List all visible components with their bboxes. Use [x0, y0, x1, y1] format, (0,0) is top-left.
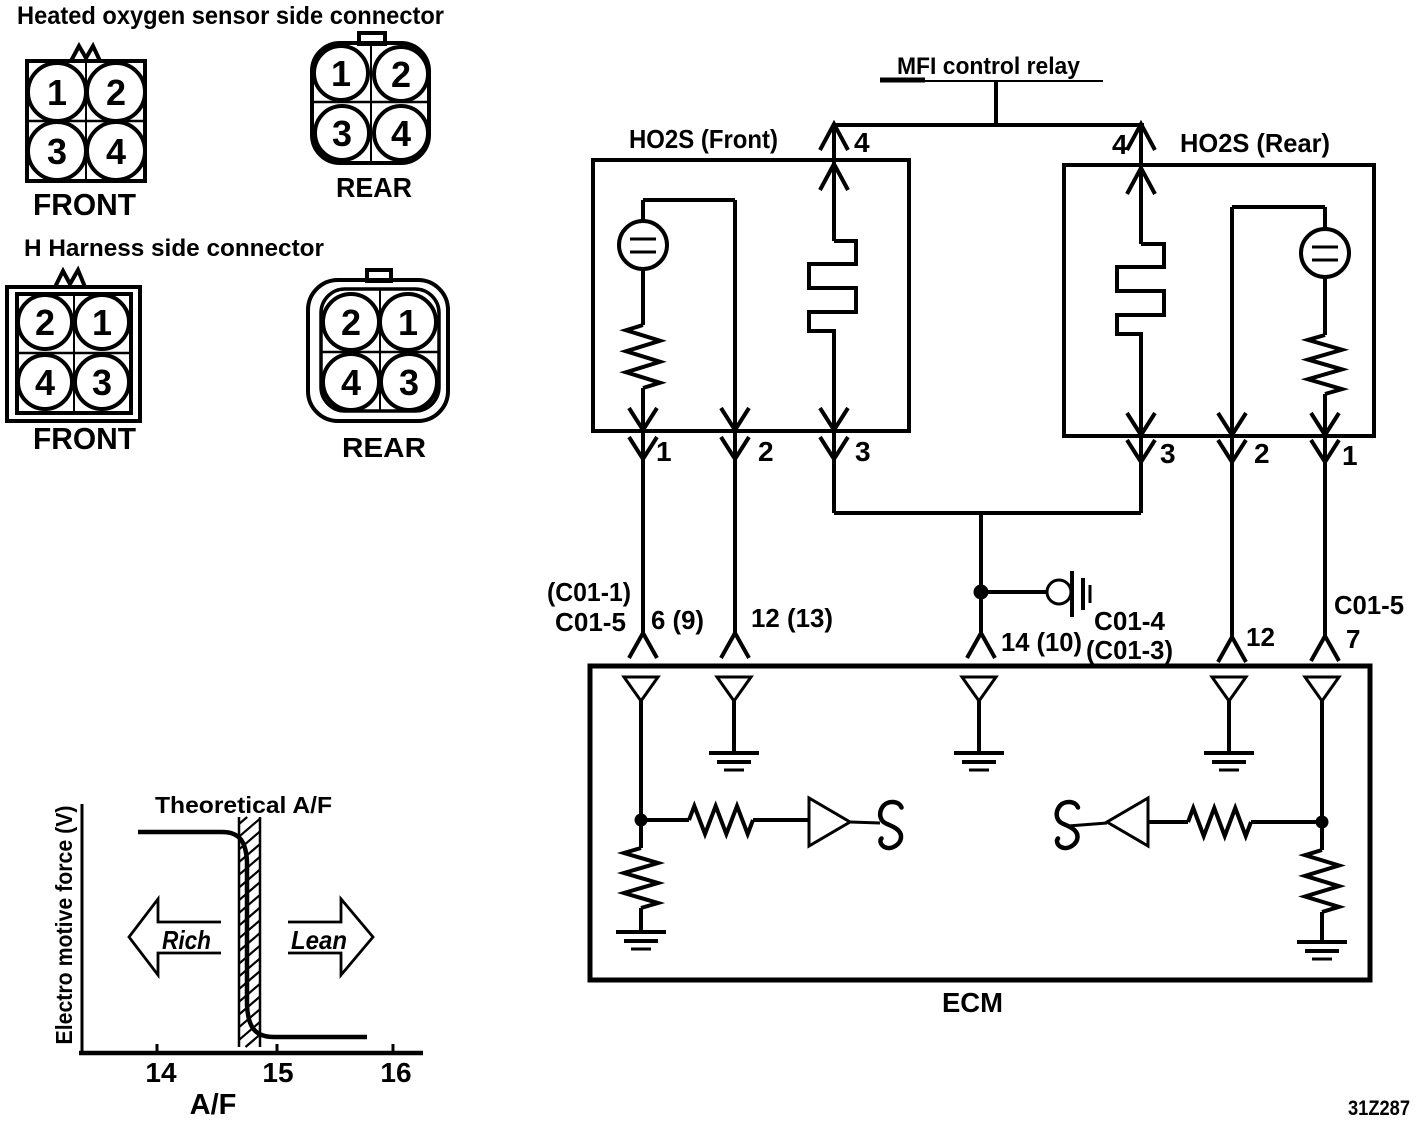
svg-text:H Harness side connector: H Harness side connector: [24, 235, 324, 262]
svg-text:FRONT: FRONT: [33, 421, 136, 456]
svg-text:C01-5: C01-5: [1334, 590, 1404, 620]
svg-text:Lean: Lean: [291, 925, 347, 955]
svg-text:4: 4: [106, 131, 126, 172]
svg-text:C01-5: C01-5: [555, 607, 626, 637]
svg-text:Electro motive force (V): Electro motive force (V): [51, 806, 77, 1045]
svg-text:3: 3: [47, 131, 67, 172]
svg-text:2: 2: [341, 302, 361, 343]
svg-text:(C01-1): (C01-1): [547, 577, 631, 607]
svg-text:A/F: A/F: [190, 1089, 237, 1121]
svg-text:4: 4: [391, 113, 411, 154]
svg-text:2: 2: [1254, 438, 1270, 469]
svg-text:4: 4: [341, 362, 361, 403]
svg-text:HO2S (Front): HO2S (Front): [629, 124, 778, 154]
svg-text:Heated oxygen sensor side conn: Heated oxygen sensor side connector: [17, 2, 444, 30]
svg-text:2: 2: [391, 54, 411, 95]
svg-text:7: 7: [1346, 624, 1360, 654]
svg-text:6 (9): 6 (9): [651, 605, 704, 635]
svg-text:3: 3: [399, 362, 419, 403]
svg-text:HO2S (Rear): HO2S (Rear): [1180, 128, 1330, 158]
svg-text:12 (13): 12 (13): [751, 603, 833, 633]
svg-text:1: 1: [656, 436, 672, 467]
svg-text:Theoretical A/F: Theoretical A/F: [155, 792, 332, 818]
svg-text:REAR: REAR: [342, 432, 426, 463]
svg-text:15: 15: [262, 1057, 293, 1088]
svg-text:3: 3: [332, 113, 352, 154]
svg-text:C01-4: C01-4: [1094, 606, 1166, 636]
svg-text:31Z287: 31Z287: [1348, 1097, 1410, 1120]
svg-text:12: 12: [1246, 622, 1275, 652]
svg-text:4: 4: [35, 362, 55, 403]
svg-text:1: 1: [47, 72, 67, 113]
svg-text:14 (10): 14 (10): [1001, 627, 1082, 657]
svg-text:3: 3: [92, 362, 112, 403]
svg-text:3: 3: [1160, 438, 1176, 469]
svg-text:3: 3: [855, 436, 871, 467]
svg-text:16: 16: [380, 1057, 411, 1088]
svg-text:Rich: Rich: [162, 925, 211, 955]
svg-text:ECM: ECM: [942, 987, 1003, 1018]
svg-text:2: 2: [106, 72, 126, 113]
svg-text:4: 4: [854, 127, 870, 158]
svg-text:FRONT: FRONT: [33, 187, 136, 222]
svg-text:(C01-3): (C01-3): [1086, 635, 1173, 665]
svg-text:MFI control relay: MFI control relay: [897, 53, 1081, 80]
svg-text:1: 1: [92, 302, 112, 343]
svg-text:1: 1: [398, 302, 418, 343]
svg-text:4: 4: [1112, 129, 1128, 160]
svg-text:1: 1: [1342, 440, 1358, 471]
svg-text:REAR: REAR: [336, 172, 412, 203]
svg-text:14: 14: [145, 1057, 177, 1088]
svg-text:1: 1: [331, 53, 351, 94]
svg-text:2: 2: [35, 302, 55, 343]
svg-text:2: 2: [758, 436, 774, 467]
